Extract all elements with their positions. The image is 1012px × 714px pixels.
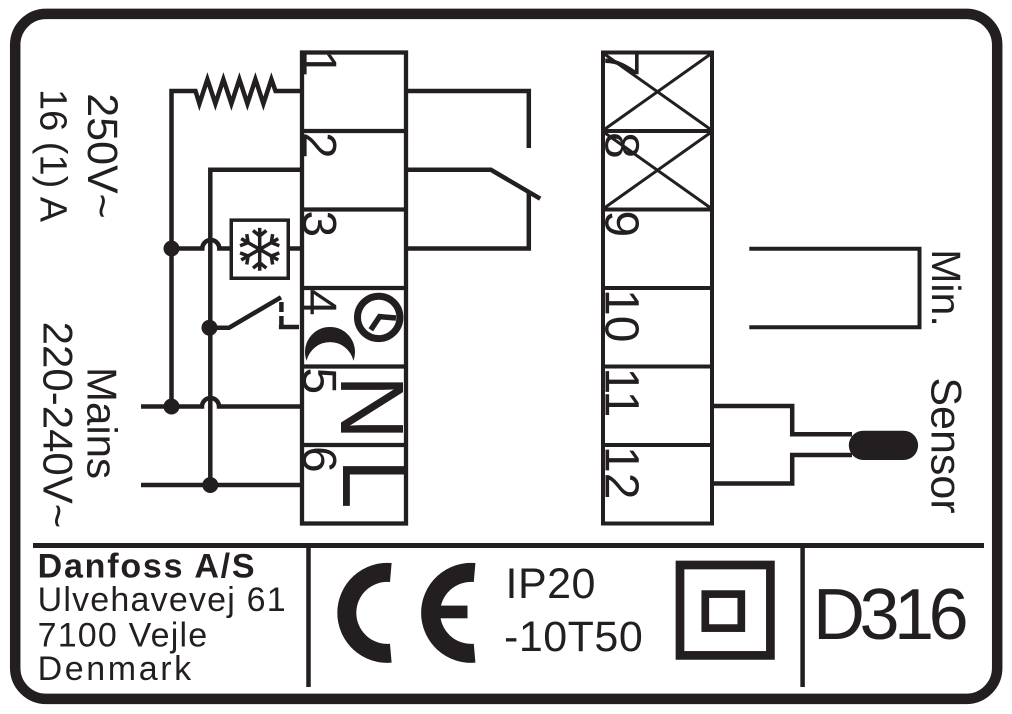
svg-text:9: 9 <box>595 211 648 238</box>
svg-text:D316: D316 <box>813 575 966 655</box>
svg-text:16 (1) A: 16 (1) A <box>32 89 74 223</box>
svg-text:1: 1 <box>292 50 345 77</box>
svg-text:-10T50: -10T50 <box>504 613 643 661</box>
svg-text:2: 2 <box>292 132 345 159</box>
svg-text:Ulvehavevej 61: Ulvehavevej 61 <box>38 581 287 619</box>
svg-text:10: 10 <box>595 289 648 342</box>
svg-text:7100 Vejle: 7100 Vejle <box>38 616 209 654</box>
svg-text:7: 7 <box>595 50 648 77</box>
svg-text:8: 8 <box>595 132 648 159</box>
svg-text:4: 4 <box>292 289 345 316</box>
svg-text:Denmark: Denmark <box>38 650 194 688</box>
svg-text:250V~: 250V~ <box>78 93 126 219</box>
svg-text:3: 3 <box>292 211 345 238</box>
svg-text:11: 11 <box>595 368 648 418</box>
svg-text:12: 12 <box>595 446 648 499</box>
svg-text:Min.: Min. <box>923 249 969 326</box>
svg-text:Danfoss A/S: Danfoss A/S <box>38 548 257 586</box>
svg-text:IP20: IP20 <box>506 560 596 608</box>
svg-text:Sensor: Sensor <box>922 377 970 513</box>
svg-text:L: L <box>323 459 423 509</box>
svg-text:Mains: Mains <box>79 367 126 479</box>
svg-text:220-240V~: 220-240V~ <box>35 322 82 529</box>
svg-text:N: N <box>321 375 421 440</box>
